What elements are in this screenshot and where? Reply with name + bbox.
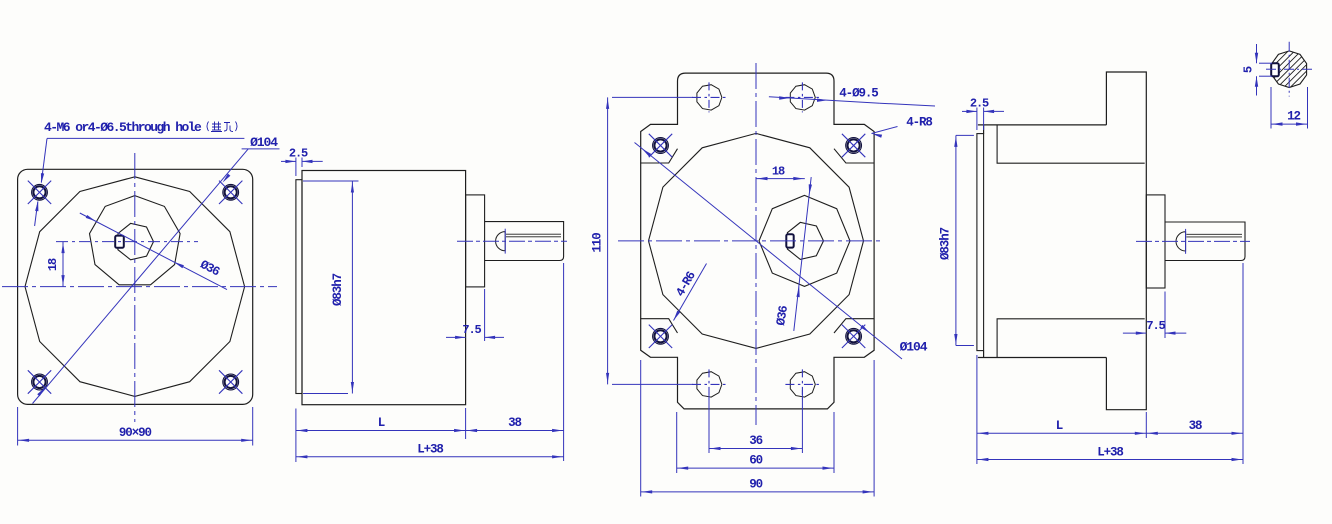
view2 dim L bbox=[295, 409, 297, 463]
svg-text:90: 90 bbox=[749, 478, 762, 492]
view2 dim O83h7 bbox=[303, 180, 359, 182]
view1 horizontal centerline (flange) bbox=[2, 286, 277, 288]
section keyway bbox=[1271, 63, 1279, 76]
view1 horizontal centerline (shaft) bbox=[56, 241, 198, 243]
svg-text:Ø104: Ø104 bbox=[250, 135, 278, 150]
svg-text:7.5: 7.5 bbox=[462, 323, 481, 337]
view1 label (tong kong) glyphs bbox=[207, 122, 237, 132]
section hatching bbox=[1235, 47, 1332, 91]
view3 label 4-R6 bbox=[674, 264, 707, 321]
svg-text:Ø83h7: Ø83h7 bbox=[331, 273, 345, 306]
view1 mounting hole bottom-left bbox=[32, 374, 48, 390]
view1 dim 18 bbox=[62, 242, 64, 287]
section circle bbox=[1272, 51, 1307, 88]
svg-text:18: 18 bbox=[46, 258, 60, 271]
svg-text:2.5: 2.5 bbox=[289, 147, 308, 161]
view1 dim 90x90 bbox=[17, 407, 19, 446]
v3 body circle bbox=[649, 133, 864, 348]
view4 shaft bbox=[1165, 222, 1245, 261]
view1 vertical centerline bbox=[134, 153, 136, 422]
view2 dim 38 bbox=[563, 263, 565, 461]
svg-text:60: 60 bbox=[749, 454, 762, 468]
body circle bbox=[25, 177, 245, 397]
view3 flange outline bbox=[641, 73, 874, 409]
view1 dim O36 diagonal bbox=[80, 213, 227, 290]
view3 lug top-left inner line bbox=[640, 149, 677, 163]
v3 shaft circle bbox=[787, 222, 823, 259]
svg-text:L: L bbox=[1056, 419, 1063, 433]
svg-text:4-R8: 4-R8 bbox=[906, 116, 932, 130]
view2 shaft bbox=[485, 222, 564, 261]
svg-text:Ø104: Ø104 bbox=[900, 340, 928, 355]
view2 dim L+38 bbox=[296, 456, 564, 458]
svg-text:38: 38 bbox=[508, 416, 521, 430]
tabhole bbox=[790, 372, 815, 397]
view4 shaft centerline bbox=[1136, 240, 1250, 242]
O104 label bbox=[242, 148, 280, 150]
tabhole bbox=[697, 372, 722, 397]
v3 boss circle bbox=[759, 195, 850, 286]
section centerlines bbox=[1288, 42, 1290, 97]
view3 lug hole bottom-right bbox=[846, 328, 862, 344]
svg-text:90×90: 90×90 bbox=[119, 426, 152, 440]
view4 dim L bbox=[976, 355, 978, 464]
view2 shaft center hole bbox=[496, 232, 506, 251]
view1 square flange outline 90x90 bbox=[18, 169, 253, 404]
view3 dim O104 diagonal bbox=[635, 143, 903, 360]
view3 dim 18 bbox=[756, 178, 805, 180]
view2 shaft crosshair bbox=[504, 229, 506, 254]
tabhole bbox=[790, 85, 815, 110]
view3 lug hole top-right bbox=[846, 138, 862, 154]
view4 dim 7.5 bbox=[1164, 292, 1166, 339]
view3 dim 110 bbox=[607, 97, 609, 384]
svg-text:4-M6 or4-Ø6.5through hole: 4-M6 or4-Ø6.5through hole bbox=[44, 120, 202, 135]
svg-text:L: L bbox=[378, 416, 385, 430]
section dim 12 bbox=[1270, 87, 1272, 129]
svg-text:110: 110 bbox=[591, 233, 605, 253]
view4 spigot plate 2.5 bbox=[977, 134, 984, 351]
view4 flange plate bbox=[1106, 72, 1146, 410]
boss circle bbox=[90, 196, 181, 285]
svg-text:18: 18 bbox=[772, 165, 785, 179]
svg-text:L+38: L+38 bbox=[1097, 445, 1123, 459]
view3 lug bottom-left inner line bbox=[640, 319, 677, 333]
svg-text:2.5: 2.5 bbox=[970, 97, 989, 111]
view3 label 4-O9.5 bbox=[769, 97, 880, 103]
view2 shaft centerline bbox=[457, 240, 567, 242]
view1 mounting hole top-right bbox=[223, 184, 239, 200]
svg-text:4-Ø9.5: 4-Ø9.5 bbox=[839, 87, 878, 101]
view1 mounting hole bottom-right bbox=[223, 374, 239, 390]
view3 lug hole top-left bbox=[653, 138, 669, 154]
view2 motor body bbox=[302, 171, 466, 405]
view4 dim O83h7 bbox=[956, 134, 974, 136]
view4 shaft crosshair bbox=[1185, 229, 1187, 254]
svg-text:Ø83h7: Ø83h7 bbox=[939, 227, 953, 260]
view1 dim O104 diagonal bbox=[33, 149, 249, 404]
view2 dim 7.5 bbox=[484, 289, 486, 341]
view4 keyway lines bbox=[1186, 233, 1242, 235]
view3 keyway bbox=[786, 234, 793, 247]
view4 gearbox outer body bbox=[978, 125, 1107, 358]
view3 dim 60 bbox=[676, 412, 678, 473]
view1 mounting hole top-left bbox=[32, 184, 48, 200]
view4 dim 38 bbox=[1242, 263, 1244, 464]
view3 dim 90 bbox=[640, 360, 642, 497]
view3 lug hole bottom-left bbox=[653, 328, 669, 344]
view2 dim 2.5 bbox=[295, 158, 297, 177]
view3 label 4-R8 bbox=[872, 127, 898, 134]
view4 shaft center hole bbox=[1176, 232, 1186, 251]
view2 spigot plate 2.5 bbox=[296, 180, 302, 394]
view4 boss bbox=[1146, 195, 1165, 288]
view2 boss bbox=[466, 195, 485, 287]
view3 horizontal centerline bbox=[618, 240, 882, 242]
view3 vertical centerline bbox=[755, 63, 757, 425]
view4 dim L+38 bbox=[977, 459, 1243, 461]
svg-text:L+38: L+38 bbox=[417, 443, 443, 457]
svg-text:38: 38 bbox=[1189, 419, 1202, 433]
view4 dim 2.5 bbox=[976, 108, 978, 131]
svg-text:5: 5 bbox=[1242, 66, 1256, 73]
view3 lug top-right inner line bbox=[834, 149, 875, 163]
view3 lug bottom-right inner line bbox=[834, 319, 875, 333]
svg-text:12: 12 bbox=[1287, 110, 1300, 124]
svg-text:Ø36: Ø36 bbox=[774, 305, 791, 327]
view4 inner body step bbox=[997, 125, 1145, 358]
section dim 5 bbox=[1256, 44, 1258, 63]
shaft circle bbox=[118, 223, 154, 259]
view1 keyway bbox=[115, 236, 124, 248]
svg-text:7.5: 7.5 bbox=[1146, 319, 1165, 333]
tabhole bbox=[697, 85, 722, 110]
view3 dim O36 tilted bbox=[794, 177, 811, 331]
view3 dim 36 bbox=[708, 390, 710, 453]
svg-text:36: 36 bbox=[749, 434, 762, 448]
view1 label 4-M6 leader bbox=[47, 137, 244, 139]
view2 keyway lines bbox=[506, 233, 561, 235]
